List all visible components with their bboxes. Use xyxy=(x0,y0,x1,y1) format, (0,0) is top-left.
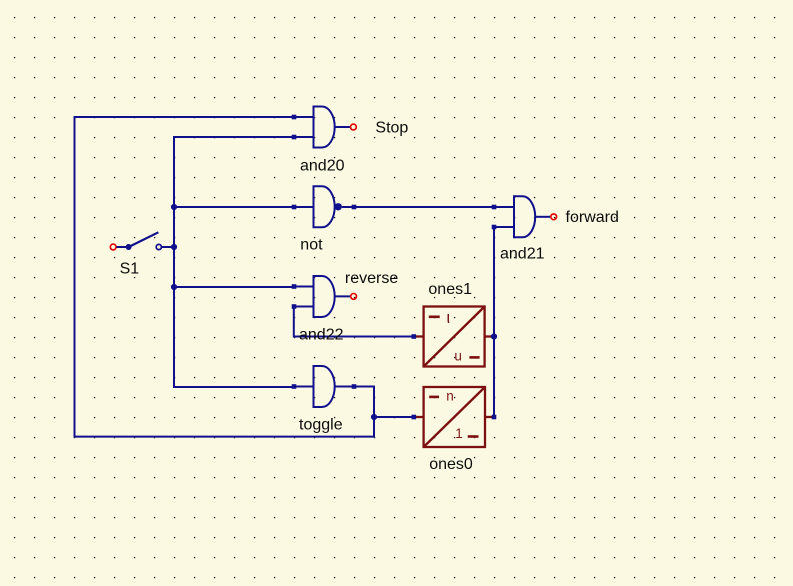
svg-text:toggle: toggle xyxy=(299,417,343,434)
svg-text:1: 1 xyxy=(455,426,463,441)
svg-text:and20: and20 xyxy=(300,157,345,174)
svg-text:not: not xyxy=(300,236,323,253)
svg-text:n: n xyxy=(446,388,454,403)
open node Stop xyxy=(351,124,357,130)
junction dot: middle bus / not input xyxy=(171,204,177,210)
wire: switch S1 contact to middle bus xyxy=(161,246,174,248)
wire: middle vertical bus with and20-in2 and toggle-in branches xyxy=(174,137,294,387)
junction dot: middle bus / switch xyxy=(171,244,177,250)
and gate and22 xyxy=(294,276,351,317)
wire: right vertical from and21 input 2 down to ones0 xyxy=(493,227,495,417)
node square: not output xyxy=(352,205,357,210)
svg-text:S1: S1 xyxy=(120,260,140,277)
node square: ones0 left pin xyxy=(412,415,417,420)
node square: ones0 right pin xyxy=(492,415,497,420)
node square: toggle output xyxy=(352,384,357,389)
node square: and20 input 1 xyxy=(292,115,297,120)
svg-text:ones1: ones1 xyxy=(428,281,472,298)
not gate xyxy=(294,186,342,227)
open node reverse xyxy=(351,294,357,300)
subcircuit ones1 xyxy=(414,307,494,367)
wire: middle bus to not-gate input xyxy=(174,206,294,208)
wire: and21 input 2 lead xyxy=(494,226,514,228)
wire: not output to and21 input 1 xyxy=(342,206,514,208)
junction dot: toggle output / ones0 branch xyxy=(371,414,377,420)
wire: middle bus to and22 input 1 xyxy=(174,286,294,288)
switch S1 xyxy=(110,232,161,250)
svg-text:ones0: ones0 xyxy=(429,456,473,473)
svg-text:and22: and22 xyxy=(299,327,344,344)
wire: and22 input 2 drop to ones1 left pin xyxy=(294,307,414,337)
svg-text:and21: and21 xyxy=(500,245,545,262)
node square: and21 input 1 xyxy=(492,205,497,210)
svg-text:Stop: Stop xyxy=(375,120,408,137)
open node forward xyxy=(551,214,557,220)
wire: junction to ones0 left pin xyxy=(374,416,414,418)
svg-text:ι: ι xyxy=(446,308,450,327)
subcircuit ones0 xyxy=(414,387,494,447)
and gate and21 xyxy=(514,196,551,237)
buffer gate toggle xyxy=(294,366,335,407)
svg-text:u: u xyxy=(454,349,462,364)
and gate and20 xyxy=(294,107,351,148)
node square: not input xyxy=(292,205,297,210)
node square: and21 input 2 xyxy=(492,225,497,230)
node square: and22 input 2 xyxy=(292,304,297,309)
node square: toggle input xyxy=(292,384,297,389)
node square: and22 input 1 xyxy=(292,284,297,289)
node square: and20 input 2 xyxy=(292,135,297,140)
node square: ones1 left pin xyxy=(412,334,417,339)
wire: feedback loop (top-left-bottom) xyxy=(75,117,375,437)
svg-text:reverse: reverse xyxy=(345,270,398,287)
junction dot: middle bus / and22 input xyxy=(171,284,177,290)
junction dot: right vertical / ones1 right pin xyxy=(491,333,497,339)
svg-text:forward: forward xyxy=(566,209,619,226)
